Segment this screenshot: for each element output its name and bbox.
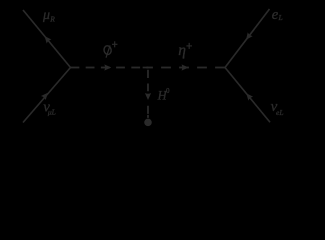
arrow on eta+ line (points right) bbox=[182, 64, 189, 70]
wire dashed scalar line eta+ (middle junction to right vertex) bbox=[148, 67, 225, 69]
svg-text:R: R bbox=[49, 14, 55, 23]
arrow on nu_muL line (points up-right toward vertex) bbox=[41, 93, 48, 100]
arrow on e_L line (points down-left toward vertex) bbox=[246, 32, 253, 39]
wire junction dash through T bbox=[143, 67, 148, 69]
wire fermion line mu_R (top-left leg) bbox=[23, 10, 71, 68]
arrow on H0 line (points down) bbox=[145, 93, 151, 100]
wire fermion line nu_eL (bottom-right leg) bbox=[225, 68, 270, 123]
label phi+ (phi drawn as loop + stem) bbox=[103, 41, 117, 57]
node right vertex bbox=[224, 67, 226, 69]
vev insertion dot at bottom of H0 line bbox=[144, 119, 152, 127]
arrow on phi+ line (points right) bbox=[104, 64, 111, 70]
arrow on nu_eL line (points up-left toward vertex) bbox=[246, 93, 253, 100]
wire dashed scalar line phi+ (left vertex to middle junction) bbox=[71, 67, 149, 69]
svg-text:μL: μL bbox=[48, 108, 56, 117]
svg-text:0: 0 bbox=[166, 87, 170, 95]
wire vertical dashed scalar line H0 tadpole bbox=[147, 70, 149, 118]
wire fermion line nu_muL (bottom-left leg) bbox=[23, 68, 71, 123]
svg-text:μ: μ bbox=[42, 8, 50, 23]
arrow on mu_R line (points up-left) bbox=[45, 36, 52, 43]
node left vertex bbox=[70, 67, 72, 69]
svg-text:eL: eL bbox=[276, 108, 284, 117]
svg-text:L: L bbox=[278, 13, 283, 22]
node middle junction bbox=[147, 67, 149, 69]
wire fermion line e_L (top-right leg) bbox=[225, 9, 270, 68]
svg-text:η: η bbox=[178, 42, 186, 59]
